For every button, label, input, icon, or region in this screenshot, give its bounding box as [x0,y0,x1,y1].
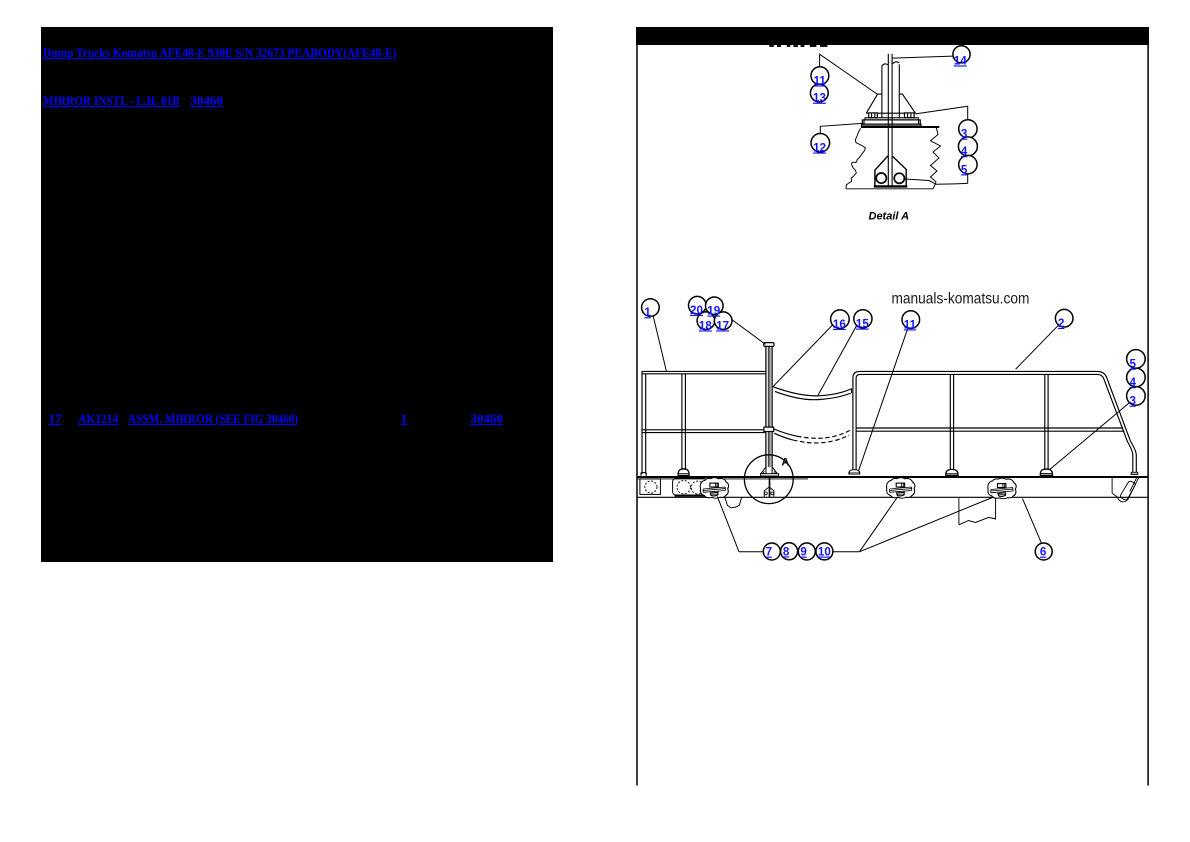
svg-text:12: 12 [813,142,826,155]
svg-text:15: 15 [856,318,869,331]
svg-text:11: 11 [904,318,917,331]
svg-text:3: 3 [961,128,968,141]
svg-text:10: 10 [818,546,831,559]
svg-text:3: 3 [1130,395,1137,408]
svg-text:A: A [781,456,789,468]
svg-text:6: 6 [1040,546,1047,559]
svg-text:Detail A: Detail A [869,211,910,223]
svg-text:9: 9 [800,546,807,559]
svg-text:11: 11 [814,74,827,87]
svg-text:4: 4 [1130,376,1137,389]
svg-text:20: 20 [690,304,703,317]
svg-text:2: 2 [1058,317,1064,330]
svg-text:4: 4 [961,145,968,158]
svg-text:19: 19 [707,305,720,318]
svg-text:5: 5 [1130,358,1137,371]
svg-text:16: 16 [833,318,846,331]
svg-text:manuals-komatsu.com: manuals-komatsu.com [892,291,1030,308]
svg-text:8: 8 [783,545,790,558]
svg-text:14: 14 [954,54,967,67]
svg-text:1: 1 [644,306,651,319]
svg-text:17: 17 [716,319,729,332]
svg-text:5: 5 [961,163,968,176]
svg-text:13: 13 [813,92,826,105]
svg-text:7: 7 [766,546,772,559]
svg-text:18: 18 [699,319,712,332]
